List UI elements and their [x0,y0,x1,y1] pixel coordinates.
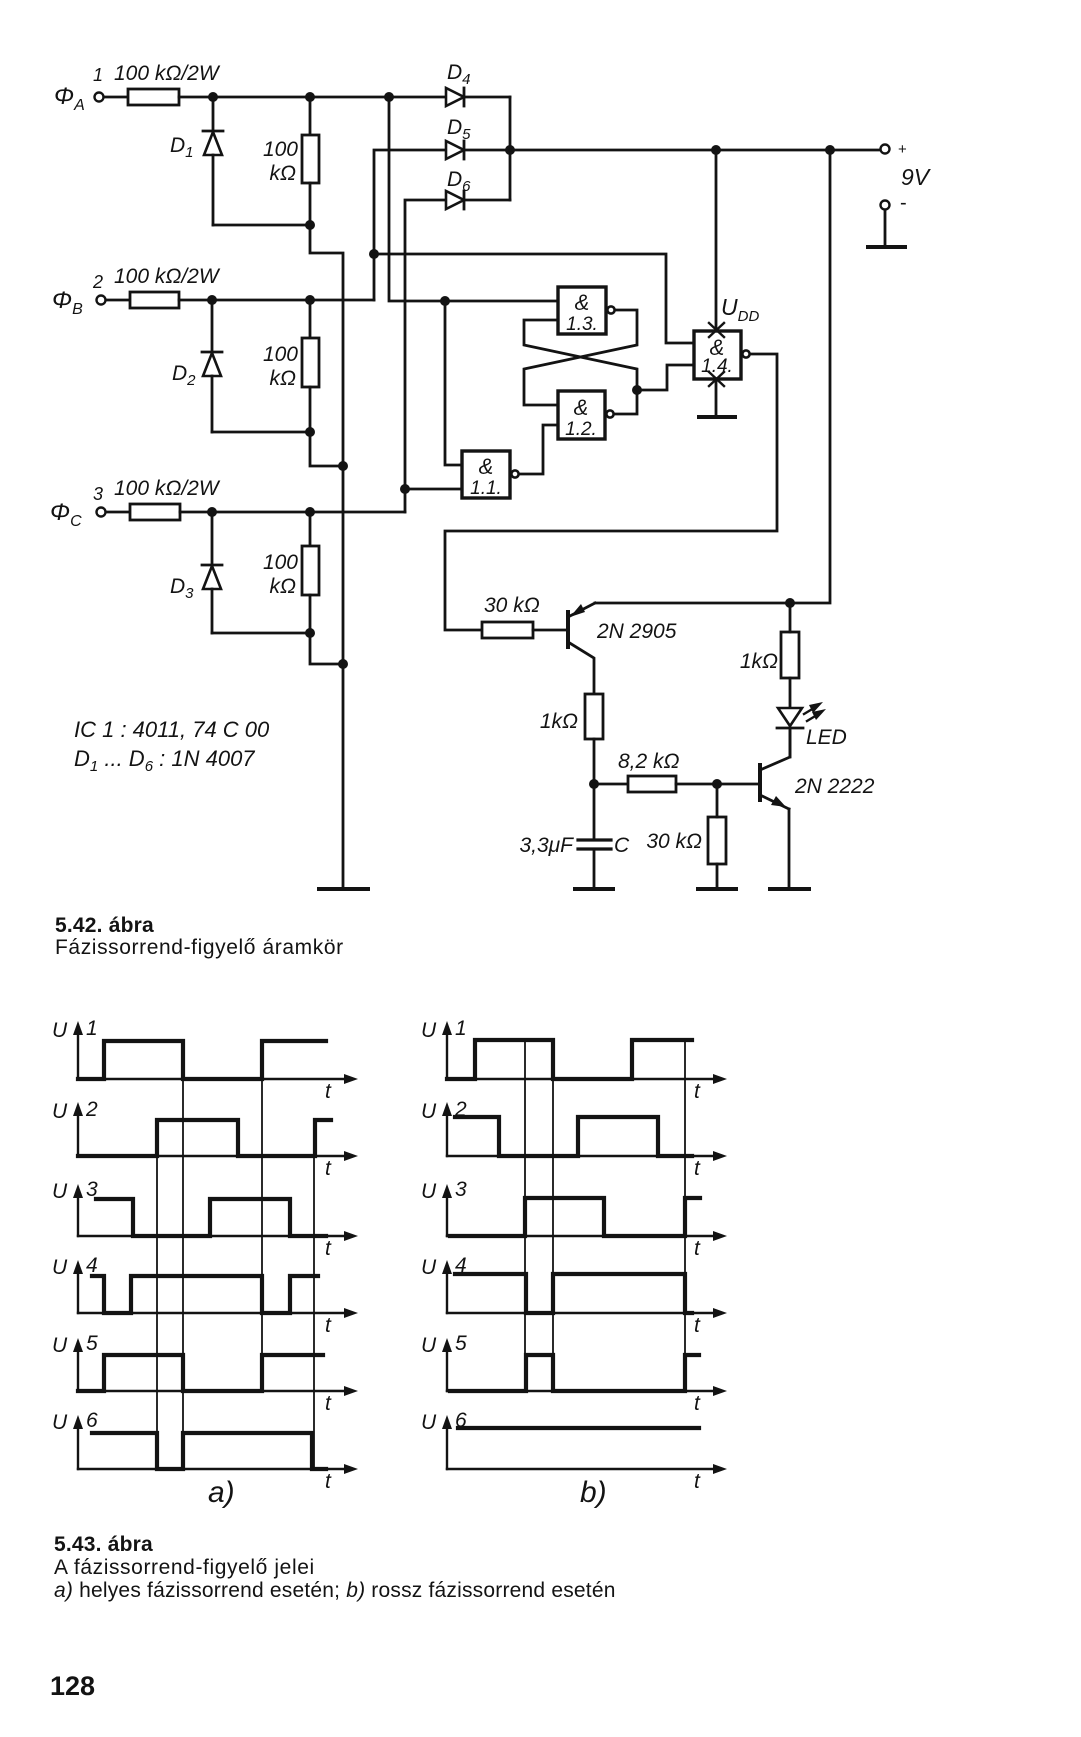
resistor R 100k/2W phase A [114,62,221,105]
node junction B1 [207,295,217,305]
svg-text:D3: D3 [170,575,194,602]
wire phase B up to D5 anode [374,150,446,300]
node axes U4 b [442,1260,727,1318]
capacitor C 3.3uF [519,784,630,887]
svg-text:3: 3 [455,1178,467,1201]
wire latch cross: 1.3 out to 1.2 upper input [524,310,637,405]
node junction UDD tap [711,145,721,155]
node axes U1 b [442,1021,727,1084]
resistor R 100k phase A [263,97,319,225]
resistor 1k collector Q1 [540,694,603,739]
transistor Q1 2N2905 [568,603,677,694]
svg-text:&: & [574,395,589,420]
svg-text:t: t [694,1392,701,1415]
svg-text:t: t [325,1157,332,1180]
svg-text:100 kΩ/2W: 100 kΩ/2W [114,62,221,85]
node supply X mark bottom of gate 1.4 [709,372,724,386]
wire terminal3 to R5 [106,511,130,514]
svg-text:8,2 kΩ: 8,2 kΩ [618,750,680,773]
node phase C input terminal 3 [50,484,106,530]
wire phase C up / D6 line down to gate 1.1 [405,200,446,512]
svg-text:t: t [325,1080,332,1103]
wire phase A chain to common ground line [310,225,343,887]
svg-text:U: U [421,1019,437,1042]
svg-text:5: 5 [455,1332,467,1355]
svg-text:kΩ: kΩ [270,367,297,390]
svg-text:5: 5 [86,1332,98,1355]
resistor 30k base divider [646,784,726,887]
svg-text:2: 2 [92,272,103,292]
diode D4 [446,61,510,106]
svg-text:&: & [479,454,494,479]
svg-text:U: U [421,1180,437,1203]
wire waveform U4 b [455,1274,692,1313]
svg-text:1.4.: 1.4. [701,356,733,377]
node axes U3 a [73,1184,358,1241]
node minus terminal [881,192,907,246]
svg-text:IC 1 : 4011, 74 C 00: IC 1 : 4011, 74 C 00 [74,717,270,742]
svg-text:t: t [694,1314,701,1337]
svg-text:4: 4 [86,1254,98,1277]
ground main [319,887,368,891]
wire waveform U5 a [78,1355,323,1391]
wire terminal2 to R3 [106,299,130,302]
wire waveform U1 a [78,1041,326,1079]
LED light arrows [804,702,826,721]
svg-text:1: 1 [86,1017,98,1040]
svg-text:100: 100 [263,138,298,161]
node junction B3 [369,249,379,259]
node diagram b reference line 2 [552,1040,554,1391]
node junction C2 [305,507,315,517]
node junction B5 [338,461,348,471]
svg-text:-: - [900,192,907,214]
svg-text:30 kΩ: 30 kΩ [646,830,702,853]
wire D1 bottom to R2 bottom [213,224,310,227]
wire 30k to Q1 base [533,629,566,632]
ground of capacitor [575,887,613,891]
wire gate 1.1 out to gate 1.2 lower input [519,425,558,474]
resistor R 100k phase C [263,512,319,633]
svg-text:2: 2 [85,1098,98,1121]
svg-text:1kΩ: 1kΩ [540,710,578,733]
svg-text:a) helyes fázissorrend esetén;: a) helyes fázissorrend esetén; b) rossz … [54,1579,616,1602]
svg-text:LED: LED [806,726,847,749]
ground of minus terminal [868,245,905,249]
diode D6 [446,168,510,209]
svg-text:U: U [421,1256,437,1279]
node axes U2 a [73,1102,358,1161]
wire gate 1.4 ground pin [715,379,718,416]
op-amp: NAND gate 1.4 [694,331,750,379]
wire waveform U1 b [447,1040,692,1079]
svg-text:1.3.: 1.3. [566,314,598,335]
svg-text:+: + [898,141,907,158]
node junction A4 [305,220,315,230]
node diagram a reference line 1 [156,1120,158,1469]
wire phase B chain to common ground line [310,432,343,466]
svg-text:U: U [52,1100,68,1123]
wire UDD supply line [715,150,718,329]
wire waveform U2 a [78,1120,331,1156]
svg-text:U: U [421,1411,437,1434]
svg-text:ΦB: ΦB [52,287,83,318]
wire waveform U2 b [455,1117,692,1156]
svg-text:D1: D1 [170,134,194,161]
svg-text:&: & [575,290,590,315]
diode D2 [172,300,222,432]
node axes U6 a [73,1415,358,1474]
svg-text:U: U [52,1019,68,1042]
node caption figure 5.43 [54,1533,616,1602]
op-amp: NAND gate 1.1 [462,451,519,499]
node junction 30k base [712,779,722,789]
svg-text:ΦA: ΦA [54,83,85,114]
node junction right rail tap [825,145,835,155]
svg-text:128: 128 [50,1671,95,1701]
op-amp: NAND gate 1.3 [558,287,615,335]
node axes U5 a [73,1338,358,1396]
svg-text:100 kΩ/2W: 100 kΩ/2W [114,477,221,500]
svg-text:1kΩ: 1kΩ [740,650,778,673]
wire waveform U4 a [92,1276,318,1313]
wire branch down to gate 1.1 upper input [445,301,462,465]
svg-text:A fázissorrend-figyelő jelei: A fázissorrend-figyelő jelei [54,1556,315,1579]
svg-text:b): b) [580,1476,607,1509]
node junction C4 [305,628,315,638]
node junction C5 [338,659,348,669]
wire phase C chain to common ground line [310,633,343,664]
wire to gate 1.4 upper input [374,254,694,343]
wire junction to 8.2k [594,783,628,786]
node junction D5 line [505,145,515,155]
svg-text:1.1.: 1.1. [470,478,502,499]
svg-text:U: U [421,1100,437,1123]
svg-text:U: U [52,1334,68,1357]
svg-text:t: t [694,1157,701,1180]
node +9V terminal [881,141,932,190]
svg-text:kΩ: kΩ [270,575,297,598]
node junction A1 [208,92,218,102]
node junction emitter rail / 1k LED tap [785,598,795,608]
svg-text:U: U [52,1180,68,1203]
node junction C3 [400,484,410,494]
resistor 8.2k [618,750,680,792]
svg-text:t: t [325,1314,332,1337]
diode D5 [446,116,512,159]
svg-text:D1 ... D6 : 1N 4007: D1 ... D6 : 1N 4007 [74,746,255,775]
svg-text:3: 3 [93,484,103,504]
svg-text:D5: D5 [447,116,471,143]
node junction gate branch [440,296,450,306]
svg-text:U: U [421,1334,437,1357]
svg-text:U: U [52,1411,68,1434]
svg-text:t: t [325,1392,332,1415]
wire right +9V rail down to Q1 emitter [595,150,830,603]
wire waveform U6 a [92,1433,326,1469]
svg-text:C: C [614,834,630,857]
svg-text:t: t [325,1470,332,1493]
wire waveform U6 b flat high [458,1426,699,1430]
resistor R 100k/2W phase C [114,477,221,520]
svg-text:2N 2905: 2N 2905 [596,620,677,643]
node junction A2 [305,92,315,102]
resistor 1k LED [740,603,799,708]
wire gate 1.4 output feedback to 30k [445,354,777,630]
LED diode [777,708,847,757]
svg-text:5.43. ábra: 5.43. ábra [54,1533,153,1556]
svg-text:t: t [325,1237,332,1260]
svg-text:30 kΩ: 30 kΩ [484,594,540,617]
svg-text:t: t [694,1080,701,1103]
node diagram b reference line 3 [684,1040,686,1391]
svg-text:100: 100 [263,551,298,574]
ground of 30k [698,887,736,891]
node diagram a reference line 3 [261,1041,263,1391]
svg-text:t: t [694,1237,701,1260]
node axes U6 b [442,1415,727,1474]
op-amp: NAND gate 1.2 [558,391,614,440]
node junction cap/8.2k [589,779,599,789]
svg-text:D2: D2 [172,362,196,389]
transistor Q2 2N2222 [760,731,875,887]
node junction C1 [207,507,217,517]
svg-text:9V: 9V [901,164,932,190]
wire phase A line [179,96,446,99]
diode D3 [170,512,222,633]
node caption figure 5.42 [55,914,344,959]
node junction latch to gate 1.4 [632,385,642,395]
wire waveform U3 b [450,1198,700,1236]
svg-text:5.42. ábra: 5.42. ábra [55,914,154,937]
svg-text:a): a) [208,1476,235,1509]
svg-text:100: 100 [263,343,298,366]
node axes U3 b [442,1184,727,1241]
node axes U4 a [73,1260,358,1318]
svg-text:D4: D4 [447,61,471,88]
ground of gate 1.4 [699,415,735,419]
resistor R 100k/2W phase B [114,265,221,308]
svg-text:3,3μF: 3,3μF [519,834,574,857]
wire 1k to junction [593,739,596,784]
node supply X mark top of gate 1.4 [709,323,724,337]
node diagram b reference line 1 [524,1040,526,1391]
svg-text:UDD: UDD [721,294,759,325]
svg-text:2N 2222: 2N 2222 [794,775,875,798]
svg-text:D6: D6 [447,168,471,195]
node phase A input terminal 1 [54,65,104,114]
wire to gate 1.4 lower input [637,365,694,390]
resistor R 100k phase B [263,300,319,432]
wire waveform U3 a [96,1199,326,1236]
wire phase A branch to gates [389,97,558,301]
wire latch cross: 1.2 out to 1.3 lower input [524,320,637,414]
svg-text:t: t [694,1470,701,1493]
wire junction C3 to gate 1.1 lower input [405,488,462,491]
wire phase C line [180,511,405,514]
svg-text:kΩ: kΩ [270,162,297,185]
svg-text:1: 1 [93,65,103,85]
node diagram a reference line 2 [182,1041,184,1469]
wire waveform U5 b [450,1355,699,1391]
svg-text:U: U [52,1256,68,1279]
node parts list text [74,717,270,775]
node phase B input terminal 2 [52,272,106,318]
wire terminal1 to R1 [104,96,128,99]
node diagram a reference line 4 [313,1120,315,1469]
node junction B4 [305,427,315,437]
svg-text:Fázissorrend-figyelő áramkör: Fázissorrend-figyelő áramkör [55,936,344,959]
wire D3 bottom to R6 bottom [212,632,310,635]
node axes U2 b [442,1102,727,1161]
node axes U5 b [442,1338,727,1396]
wire D2 bottom to R4 bottom [212,431,310,434]
wire 8.2k to Q2 base [676,783,758,786]
svg-text:1.2.: 1.2. [565,419,597,440]
ground of Q2 emitter [770,887,809,891]
svg-text:ΦC: ΦC [50,499,82,530]
resistor 30k base Q1 [482,594,540,638]
diode D1 [170,97,223,225]
wire phase B line [179,299,374,302]
wire D4 cathode down / D6 cathode up [509,97,512,200]
node junction A3 [384,92,394,102]
wire +9V supply rail [510,149,881,152]
svg-text:1: 1 [455,1017,467,1040]
node junction B2 [305,295,315,305]
node axes U1 a [73,1021,358,1084]
svg-text:100 kΩ/2W: 100 kΩ/2W [114,265,221,288]
svg-text:6: 6 [86,1409,98,1432]
